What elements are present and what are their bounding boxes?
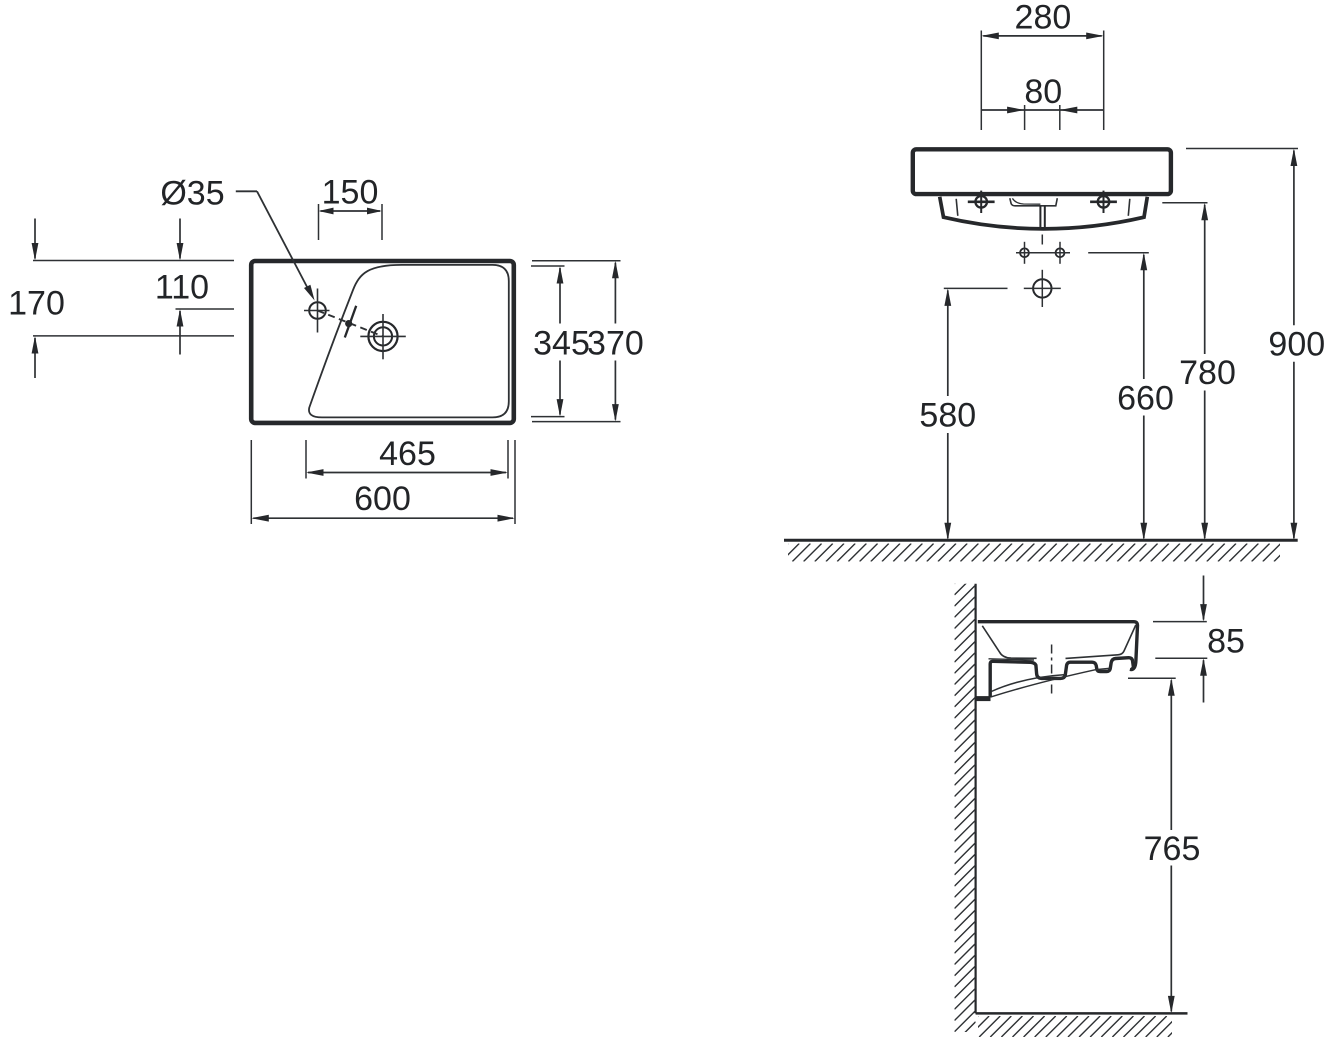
leader line from Ø35 to faucet hole bbox=[236, 191, 315, 300]
dot on centre line bbox=[345, 320, 352, 327]
extension lines for 370 bbox=[532, 261, 621, 422]
floor line (side view) bbox=[976, 1012, 1188, 1015]
faucet hole Ø35 (plan view) bbox=[304, 289, 330, 333]
extension lines for 465 bbox=[306, 440, 508, 479]
svg-text:580: 580 bbox=[919, 397, 976, 435]
dimension 600 bbox=[251, 480, 515, 522]
svg-text:280: 280 bbox=[1015, 0, 1072, 37]
washbasin outer rim (plan view) bbox=[251, 261, 514, 423]
dimension 280 bbox=[981, 0, 1103, 39]
dimension 580 bbox=[919, 288, 976, 540]
drain pipe (front view) bbox=[1040, 206, 1044, 231]
svg-text:600: 600 bbox=[354, 480, 411, 518]
bottom cap at wall (side view) bbox=[976, 696, 991, 701]
dashed centre line faucet-to-drain bbox=[318, 311, 384, 337]
dimension 765 bbox=[1144, 678, 1201, 1013]
svg-text:85: 85 bbox=[1207, 623, 1245, 661]
wall hatching (side view) bbox=[955, 563, 976, 1043]
bowl interior (side view) bbox=[982, 625, 1136, 660]
fixing hole right (front view) bbox=[1090, 191, 1117, 213]
dimension 370 bbox=[587, 261, 644, 422]
floor hatching (side view) bbox=[957, 1016, 1189, 1037]
inner wall lines (front view) bbox=[956, 199, 1130, 216]
svg-text:80: 80 bbox=[1024, 73, 1062, 111]
floor hatching (front view) bbox=[770, 544, 1292, 562]
svg-text:345: 345 bbox=[533, 324, 590, 362]
dimension 465 bbox=[306, 435, 508, 476]
svg-text:660: 660 bbox=[1117, 379, 1174, 417]
overflow recess (front view) bbox=[1010, 198, 1058, 206]
extension line drain centre (left) bbox=[33, 335, 234, 337]
dimension 170 bbox=[8, 219, 65, 379]
svg-text:370: 370 bbox=[587, 324, 644, 362]
extension lines for 85 bbox=[1153, 622, 1207, 659]
dimension 900 bbox=[1268, 149, 1325, 541]
extension line for 765 bbox=[1128, 677, 1176, 679]
basin inner outline (plan view) bbox=[309, 265, 509, 418]
drain outlet (plan view) bbox=[360, 314, 406, 359]
svg-text:765: 765 bbox=[1144, 830, 1201, 868]
svg-text:900: 900 bbox=[1268, 325, 1325, 363]
extension line 780 bbox=[1162, 202, 1207, 204]
extension lines for 345 bbox=[531, 266, 565, 417]
svg-text:780: 780 bbox=[1179, 354, 1236, 392]
svg-text:150: 150 bbox=[322, 174, 379, 212]
basin underside (front view) bbox=[940, 197, 1148, 229]
extension lines for 600 bbox=[251, 440, 515, 524]
washbasin top and right edge (side view) bbox=[978, 622, 1138, 670]
wall line (side view) bbox=[974, 584, 976, 1014]
extension line top edge (left) bbox=[33, 260, 234, 262]
extension line 900 bbox=[1186, 148, 1298, 150]
dimension 150 bbox=[319, 174, 383, 215]
extension lines for 280 bbox=[981, 31, 1103, 131]
dimension 780 bbox=[1179, 203, 1236, 540]
waste outlet (front view) bbox=[1024, 270, 1061, 307]
trap cover curves (side view) bbox=[991, 668, 1110, 697]
centre dashed line (front view) bbox=[1041, 235, 1043, 245]
supply holes (front view) bbox=[1016, 242, 1070, 264]
svg-text:Ø35: Ø35 bbox=[160, 174, 224, 212]
svg-text:110: 110 bbox=[155, 268, 209, 306]
tick mark on centre line bbox=[345, 306, 356, 338]
dimension 85 bbox=[1200, 576, 1245, 703]
extension line 660 bbox=[1088, 252, 1149, 254]
extension line faucet centre (left) bbox=[176, 308, 235, 310]
dimension 110 bbox=[155, 219, 209, 355]
svg-text:465: 465 bbox=[379, 435, 436, 473]
extension lines for 150 bbox=[319, 204, 383, 240]
svg-text:170: 170 bbox=[8, 285, 65, 323]
dimension 80 bbox=[981, 73, 1103, 130]
mounting bracket profile (side view) bbox=[990, 658, 1133, 698]
dimension 660 bbox=[1117, 253, 1174, 540]
label Ø35 bbox=[160, 174, 224, 212]
centre dashed line (side view) bbox=[1051, 645, 1053, 695]
dimension 345 bbox=[533, 266, 590, 417]
washbasin rim (front view) bbox=[913, 149, 1171, 194]
fixing hole left (front view) bbox=[968, 191, 995, 213]
extension line 580 bbox=[944, 287, 1008, 289]
floor line (front view) bbox=[784, 539, 1298, 542]
